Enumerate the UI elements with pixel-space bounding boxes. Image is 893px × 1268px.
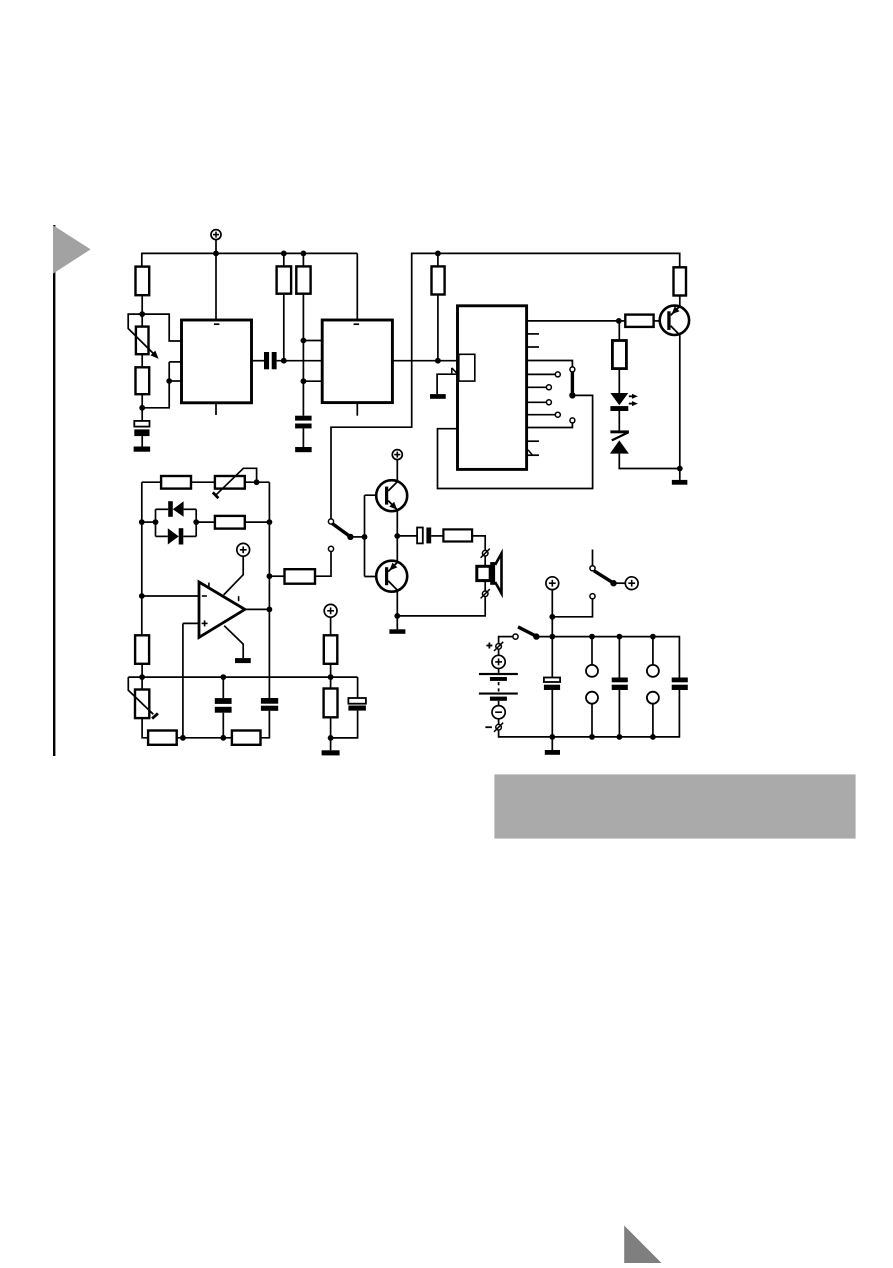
wire S4 pole to bases	[350, 536, 364, 538]
resistor R8	[612, 341, 626, 369]
battery - circle	[492, 706, 505, 719]
wire U3 pin to rotary contact 3	[527, 386, 547, 388]
node diode right	[193, 519, 199, 525]
transistor Q2	[376, 480, 407, 511]
resistor R6	[674, 267, 687, 295]
node right bus out-row	[267, 573, 273, 579]
diode pair frame	[156, 509, 197, 536]
IC U3	[458, 306, 527, 470]
wire rail to P3	[141, 677, 143, 689]
wire node H stub	[330, 738, 332, 750]
top-left gray sidebar triangle	[53, 225, 91, 273]
ground U3	[430, 394, 446, 399]
switch S3 lever	[518, 627, 535, 636]
resistor R16	[324, 635, 338, 664]
wire inv input	[142, 595, 199, 597]
op-amp U4	[199, 582, 245, 637]
resistor R4	[296, 266, 310, 293]
resistor R9	[285, 569, 316, 584]
wire node A to P1	[141, 314, 143, 327]
resistor R14	[148, 731, 177, 745]
wire U2 output to node D	[392, 360, 457, 362]
diode D2	[156, 528, 197, 544]
node bottom rail j1	[589, 734, 595, 740]
wire R2 to node B	[141, 394, 143, 408]
wire j1 bottom	[591, 704, 593, 737]
node rail-R1	[213, 251, 219, 257]
terminal battery -	[494, 723, 503, 732]
power symbol +V Q2	[392, 450, 402, 460]
left margin rule	[53, 225, 55, 756]
wire node F to C4	[397, 535, 417, 537]
power symbol +V opamp	[237, 543, 250, 556]
node G	[394, 613, 400, 619]
capacitor C8 electrolytic	[544, 678, 560, 691]
wire U3 pin to rotary contact 5	[527, 414, 555, 416]
wire U1 output	[252, 360, 265, 362]
ground rail	[128, 676, 357, 678]
node top rail c1	[549, 634, 555, 640]
wire node A to U1 pin 2	[142, 314, 181, 341]
op-amp U1	[182, 320, 252, 403]
switch S2 lever	[594, 571, 612, 583]
wire U1 pins 6-7 to node B	[142, 362, 169, 408]
wire node F to Q3 emitter	[396, 536, 398, 562]
wire U3 pin to rotary contact 2	[527, 373, 555, 375]
wire C4 to R10	[431, 535, 443, 537]
node P2 wiper	[254, 479, 260, 485]
diode D1	[156, 501, 197, 517]
node Rb-U2pin3	[301, 378, 307, 384]
node F	[394, 533, 400, 539]
resistor R5	[432, 266, 445, 294]
wire Q2 base	[365, 494, 386, 496]
battery - mark	[485, 726, 492, 728]
wire mid row	[142, 521, 215, 523]
resistor R11	[161, 476, 191, 489]
resistor R15	[232, 731, 261, 745]
resistor R17	[324, 689, 338, 718]
power symbol +V top	[211, 230, 221, 254]
wire c3 bottom	[678, 690, 680, 738]
wire j2 bottom	[652, 704, 654, 737]
wire non-inv input	[183, 622, 199, 624]
wire rail ground stub	[551, 737, 553, 750]
wire U3 pin out	[527, 320, 619, 322]
wire U3 stub c	[527, 440, 539, 442]
wire +V mic to R16	[330, 617, 332, 635]
wire c1 top	[551, 637, 553, 678]
node right bus output	[267, 607, 273, 613]
resistor R12	[215, 516, 245, 529]
wire LED branch	[618, 321, 620, 341]
terminal speaker -	[481, 589, 490, 598]
rotary switch S1 contact 2	[555, 372, 560, 377]
wire plates to -circ	[498, 701, 500, 706]
wire c2 top	[618, 637, 620, 678]
switch S4 lever	[332, 524, 349, 536]
wire c2 bottom	[618, 690, 620, 737]
switch S4 contact b	[328, 546, 333, 551]
wire U2 pin 1	[303, 340, 322, 342]
wire U3 pin to rotary contact 4	[527, 401, 547, 403]
node rail Ca	[220, 674, 226, 680]
bottom-right gray corner triangle	[624, 1226, 661, 1264]
resistor R7	[625, 315, 653, 327]
rotary switch S1 contact 6	[570, 418, 575, 423]
wire Ca top	[222, 677, 224, 698]
wire R13 to rail	[141, 664, 143, 677]
resistor R1	[136, 267, 150, 296]
wire C7 to node H	[331, 711, 358, 738]
clock marker U3	[528, 450, 533, 455]
capacitor C4 electrolytic	[417, 528, 431, 544]
wire c3 top	[678, 636, 680, 678]
wire U1 bottom stub	[215, 403, 217, 415]
ground supply	[545, 750, 560, 755]
resistor R13	[135, 635, 149, 664]
power symbol +V S2	[625, 577, 638, 590]
wire battery - to bottom rail	[498, 730, 500, 738]
wire Rc top	[437, 253, 439, 266]
transistor Q3	[376, 561, 407, 592]
potentiometer P1	[136, 327, 149, 355]
battery BT1 cell 2	[479, 693, 518, 701]
wire bottom row b	[261, 711, 270, 738]
wire rail to C7	[357, 677, 359, 698]
wire C2 to U2	[277, 360, 323, 362]
trigger marker U3 input	[452, 368, 458, 374]
ground Q3	[389, 629, 405, 634]
node E	[677, 466, 683, 472]
wire node B to C1	[141, 408, 143, 421]
P3 wiper	[128, 677, 158, 719]
node Ca bottom	[220, 735, 226, 741]
wire +V to top rail	[551, 590, 553, 637]
wire Rc bottom	[437, 295, 439, 361]
node noninv bottom	[180, 735, 186, 741]
node rail mic	[328, 674, 334, 680]
input block U3	[459, 354, 475, 381]
switch S2 pole	[610, 580, 616, 586]
battery BT1 divider	[498, 682, 500, 692]
wire bottom rail	[499, 736, 680, 738]
switch S3 pole	[533, 633, 539, 639]
wire to R7	[619, 320, 626, 322]
wire node E stub	[679, 469, 681, 480]
wire speaker return	[397, 597, 485, 616]
node mid row left	[139, 519, 145, 525]
wire Rb bottom bus	[302, 294, 304, 416]
node top rail j2	[650, 634, 656, 640]
wire U3 stub d	[527, 454, 539, 456]
wire top rail	[536, 636, 679, 638]
node rail left	[139, 674, 145, 680]
wire terminal to LS1	[484, 556, 486, 566]
wire R1 to node A	[141, 295, 143, 314]
node bases	[362, 534, 368, 540]
wire U3 stub b	[527, 346, 539, 348]
wire R16 to rail	[330, 664, 332, 677]
switch S4 contact a	[328, 519, 333, 524]
loudspeaker LS1	[477, 553, 502, 593]
capacitor C2 coupling	[264, 352, 277, 369]
capacitor C10	[672, 678, 688, 691]
wire right bus	[268, 482, 270, 698]
wire battery to S3	[499, 636, 513, 638]
wire +V to opamp	[224, 556, 244, 595]
wire net B rail	[331, 253, 680, 519]
wire LED1 to ZD1	[618, 411, 620, 430]
node out-R7	[616, 318, 622, 324]
wire +V to Q2 collector	[396, 460, 398, 482]
wire non-inv bus	[182, 623, 184, 737]
wire base bus	[364, 495, 366, 576]
resistor R10	[443, 529, 472, 541]
node H	[328, 735, 334, 741]
potentiometer P3	[135, 690, 149, 719]
resistor R2	[136, 367, 150, 394]
wire P2 to right bus	[245, 481, 270, 483]
wire LS1 to terminal	[484, 581, 486, 591]
capacitor C5	[215, 698, 232, 713]
wire top rail net A	[142, 252, 357, 254]
battery + mark	[486, 643, 492, 649]
wire rail to U2 top pin	[356, 253, 358, 320]
LED LED1	[610, 393, 638, 411]
node netB-Rc	[435, 251, 441, 257]
capacitor C3	[295, 416, 312, 447]
wire P1 to R2	[141, 354, 143, 367]
potentiometer P2	[215, 476, 245, 489]
node bottom rail c1	[549, 734, 555, 740]
wire opamp V- to ground	[224, 626, 243, 658]
wire Q2 emitter to node F	[396, 510, 398, 536]
wire rail to R17	[330, 677, 332, 688]
rotary switch S1 wiper	[571, 372, 574, 393]
wire S2 pole to +V	[614, 582, 626, 584]
power symbol +V mic	[324, 604, 337, 617]
rotary switch S1 contact 3	[546, 385, 551, 390]
wire S4 contact b to R9	[315, 552, 331, 577]
node D	[435, 358, 441, 364]
wire bottom row a	[177, 737, 232, 739]
wire R12 to right bus	[245, 521, 270, 523]
node bottom rail j2	[650, 734, 656, 740]
capacitor C6	[261, 698, 278, 711]
node bottom rail c2	[617, 734, 623, 740]
wire U1 pin 6	[169, 361, 181, 363]
switch S4 pole	[347, 534, 353, 540]
wire Ca bottom	[222, 713, 224, 738]
switch S2 contact a	[590, 566, 595, 571]
wire -circ to terminal	[498, 719, 500, 725]
wire ZD1 to node E	[619, 454, 680, 469]
jack J2	[647, 665, 659, 704]
node +V branch	[549, 614, 555, 620]
wire U3 stub a	[527, 333, 539, 335]
wire Q3 collector to node G	[396, 590, 398, 616]
power symbol +V battery rail	[546, 577, 559, 590]
rotary switch S1 contact 1	[570, 367, 575, 372]
terminal battery +	[494, 642, 503, 651]
wire R6 to Q1 emitter	[679, 296, 681, 307]
wire U2 bottom stub	[356, 403, 358, 416]
wire R11 to P2	[191, 481, 215, 483]
node C2-Ra	[281, 358, 287, 364]
potentiometer P1 wiper wire	[128, 314, 158, 359]
wire R7 to Q1 base	[654, 320, 668, 322]
gray caption box	[494, 774, 855, 838]
wire terminal to +circ	[498, 649, 500, 655]
wire rail to R1	[141, 253, 143, 267]
P2 wiper	[213, 468, 257, 498]
capacitor C7 electrolytic	[348, 698, 366, 711]
capacitor C9	[612, 678, 628, 691]
node Rb-U2pin1	[301, 338, 307, 344]
rotary switch S1 contact 5	[555, 412, 560, 417]
node inv input	[139, 593, 145, 599]
junction pin7	[166, 378, 172, 384]
switch S2 contact b	[590, 594, 595, 599]
wire P3 to bottom row	[142, 718, 148, 738]
wire Ra top	[283, 253, 285, 266]
node rail-Ra	[281, 251, 287, 257]
capacitor C1 electrolytic	[134, 421, 149, 447]
node A	[139, 311, 145, 317]
wire node G stub	[396, 616, 398, 629]
rotary switch S1 contact 4	[546, 400, 551, 405]
node top rail c2	[617, 634, 623, 640]
wire opamp output	[245, 608, 270, 610]
ground C1	[134, 447, 151, 452]
wire R17 to node H	[330, 717, 332, 738]
wire U3 pin to rotary contact 1	[527, 361, 573, 367]
wire Ra bottom	[283, 294, 285, 361]
battery BT1 cell 1	[479, 673, 518, 681]
wire R8 to LED1	[618, 369, 620, 393]
wire +V to U1 top pin	[215, 253, 217, 320]
node diode left	[153, 519, 159, 525]
zener ZD1	[610, 430, 629, 453]
switch S3 contact	[513, 634, 518, 639]
wire +circ to plates	[498, 669, 500, 673]
node rail-Rb	[301, 251, 307, 257]
wire U3 ground pin	[437, 374, 457, 394]
wire battery corner	[498, 636, 500, 644]
jack J1	[586, 665, 598, 704]
op-amp U2	[322, 320, 392, 403]
ground mic	[322, 750, 340, 755]
wire Q1 collector	[679, 335, 681, 468]
wire j2 top	[652, 637, 654, 665]
node right bus mid	[267, 519, 273, 525]
ground opamp	[235, 658, 251, 663]
wire U3 pin to rotary contact 6	[527, 423, 573, 427]
wire j1 top	[591, 637, 593, 665]
wire Rb top	[302, 253, 304, 266]
resistor R3	[277, 266, 292, 293]
node top rail j1	[589, 634, 595, 640]
wire S1 pole to U3 feedback pin	[438, 395, 593, 488]
wire Q3 base	[365, 576, 386, 578]
wire left bus	[141, 482, 143, 635]
battery + circle	[492, 655, 505, 668]
wire U1 pin 7	[169, 380, 181, 382]
wire U2 pin 3	[303, 380, 322, 382]
transistor Q1	[660, 306, 689, 336]
ground Q1	[672, 480, 688, 485]
wire S2 stub	[592, 550, 594, 566]
terminal speaker +	[481, 549, 490, 558]
wire R10 to speaker	[472, 536, 485, 551]
ground C3	[295, 447, 312, 452]
rotary switch S1 pole	[569, 392, 575, 398]
wire fb top row	[142, 481, 161, 483]
node B	[139, 405, 145, 411]
wire R9 to opamp out	[269, 575, 284, 577]
wire c1 bottom	[551, 690, 553, 737]
wire S2 contact b	[552, 599, 592, 617]
